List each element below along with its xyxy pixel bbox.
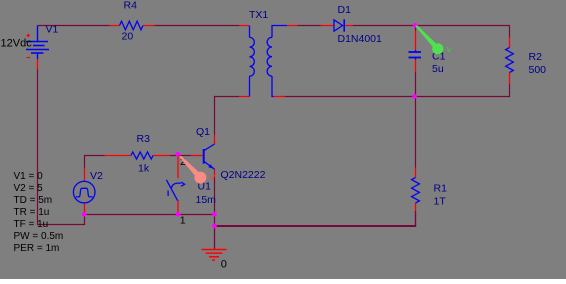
svg-text:15m: 15m	[196, 194, 217, 206]
resistor R1	[412, 168, 420, 212]
wire ground node vertical	[214, 215, 216, 226]
wire node to R1 top	[415, 97, 417, 168]
svg-text:PW = 0.5m: PW = 0.5m	[14, 231, 64, 242]
svg-text:TF = 1u: TF = 1u	[14, 219, 49, 230]
junction node 6	[212, 212, 217, 217]
svg-text:V1 = 0: V1 = 0	[14, 171, 44, 182]
voltage source V1	[26, 26, 49, 60]
svg-text:V2 = 5: V2 = 5	[14, 183, 44, 194]
wire R4 to TX1 primary top	[155, 25, 240, 27]
wire Q1 emitter to rail	[214, 178, 216, 215]
svg-text:TR = 1u: TR = 1u	[14, 207, 50, 218]
svg-text:1: 1	[180, 214, 186, 226]
transformer TX1 secondary winding	[267, 26, 287, 97]
svg-text:12Vdc: 12Vdc	[1, 38, 33, 50]
svg-text:V2: V2	[90, 170, 103, 182]
svg-text:TX1: TX1	[249, 9, 268, 21]
voltage probe green at C1 node	[416, 25, 444, 54]
wire TX1 secondary top to D1	[298, 25, 321, 27]
svg-text:D1N4001: D1N4001	[338, 33, 383, 45]
resistor R2	[506, 37, 514, 84]
V1 pin bottom	[37, 59, 39, 70]
wire base node to Q1 base pin	[178, 155, 191, 157]
svg-text:v: v	[447, 44, 452, 54]
svg-text:20: 20	[122, 31, 134, 43]
junction node 5	[176, 212, 181, 217]
ground 0	[202, 226, 227, 260]
svg-text:1T: 1T	[434, 195, 447, 207]
svg-text:v: v	[210, 172, 215, 182]
junction node 2	[412, 94, 417, 99]
svg-text:V1: V1	[46, 24, 59, 36]
junction node 3	[176, 152, 181, 157]
capacitor C1	[409, 31, 422, 73]
svg-text:R2: R2	[529, 51, 543, 63]
transformer TX1 primary winding	[250, 26, 255, 97]
wire top rail V1 to R4	[38, 25, 110, 27]
svg-text:PER = 1m: PER = 1m	[14, 243, 60, 254]
transistor Q1	[191, 135, 214, 178]
wire Q1 collector to TX1 primary bottom	[215, 97, 240, 135]
V1 plus sign	[27, 34, 31, 38]
wire V2 top to R3	[85, 156, 105, 168]
transformer TX1 pins	[239, 26, 298, 97]
voltage probe salmon at switch	[179, 156, 206, 184]
svg-text:R3: R3	[137, 133, 151, 145]
svg-text:R1: R1	[434, 183, 448, 195]
switch U1 blade	[166, 180, 184, 201]
switch U1 pins	[177, 155, 179, 215]
wire R1 bottom to ground rail	[415, 211, 417, 227]
resistor R3	[105, 152, 171, 159]
svg-text:Q2N2222: Q2N2222	[221, 169, 266, 181]
wire V1 bottom down and to V2	[38, 69, 85, 225]
svg-text:D1: D1	[338, 4, 352, 16]
wire ground rail	[215, 225, 416, 227]
svg-text:Q1: Q1	[196, 126, 210, 138]
svg-text:500: 500	[529, 64, 547, 76]
svg-text:5u: 5u	[432, 63, 444, 75]
wire C1 bottom to node	[415, 72, 417, 97]
wire R3 to base node	[170, 155, 178, 157]
diode D1	[321, 19, 354, 31]
wire bottom mid rail V2 to ground node	[85, 214, 215, 216]
voltage source V2	[73, 168, 95, 215]
junction node 7	[212, 224, 217, 229]
svg-text:R4: R4	[124, 0, 138, 12]
wire R2 bottom rail	[285, 84, 510, 97]
wire D1 to R2 top	[353, 26, 510, 38]
junction node 1	[413, 23, 418, 28]
junction node 4	[82, 212, 87, 217]
V1 minus sign	[27, 57, 31, 59]
wire node to C1 top	[415, 26, 417, 31]
simulation parameters	[14, 171, 64, 254]
svg-text:0: 0	[221, 258, 227, 270]
resistor R4	[110, 21, 155, 30]
svg-text:TD = 5m: TD = 5m	[14, 195, 53, 206]
svg-text:1k: 1k	[138, 163, 150, 175]
